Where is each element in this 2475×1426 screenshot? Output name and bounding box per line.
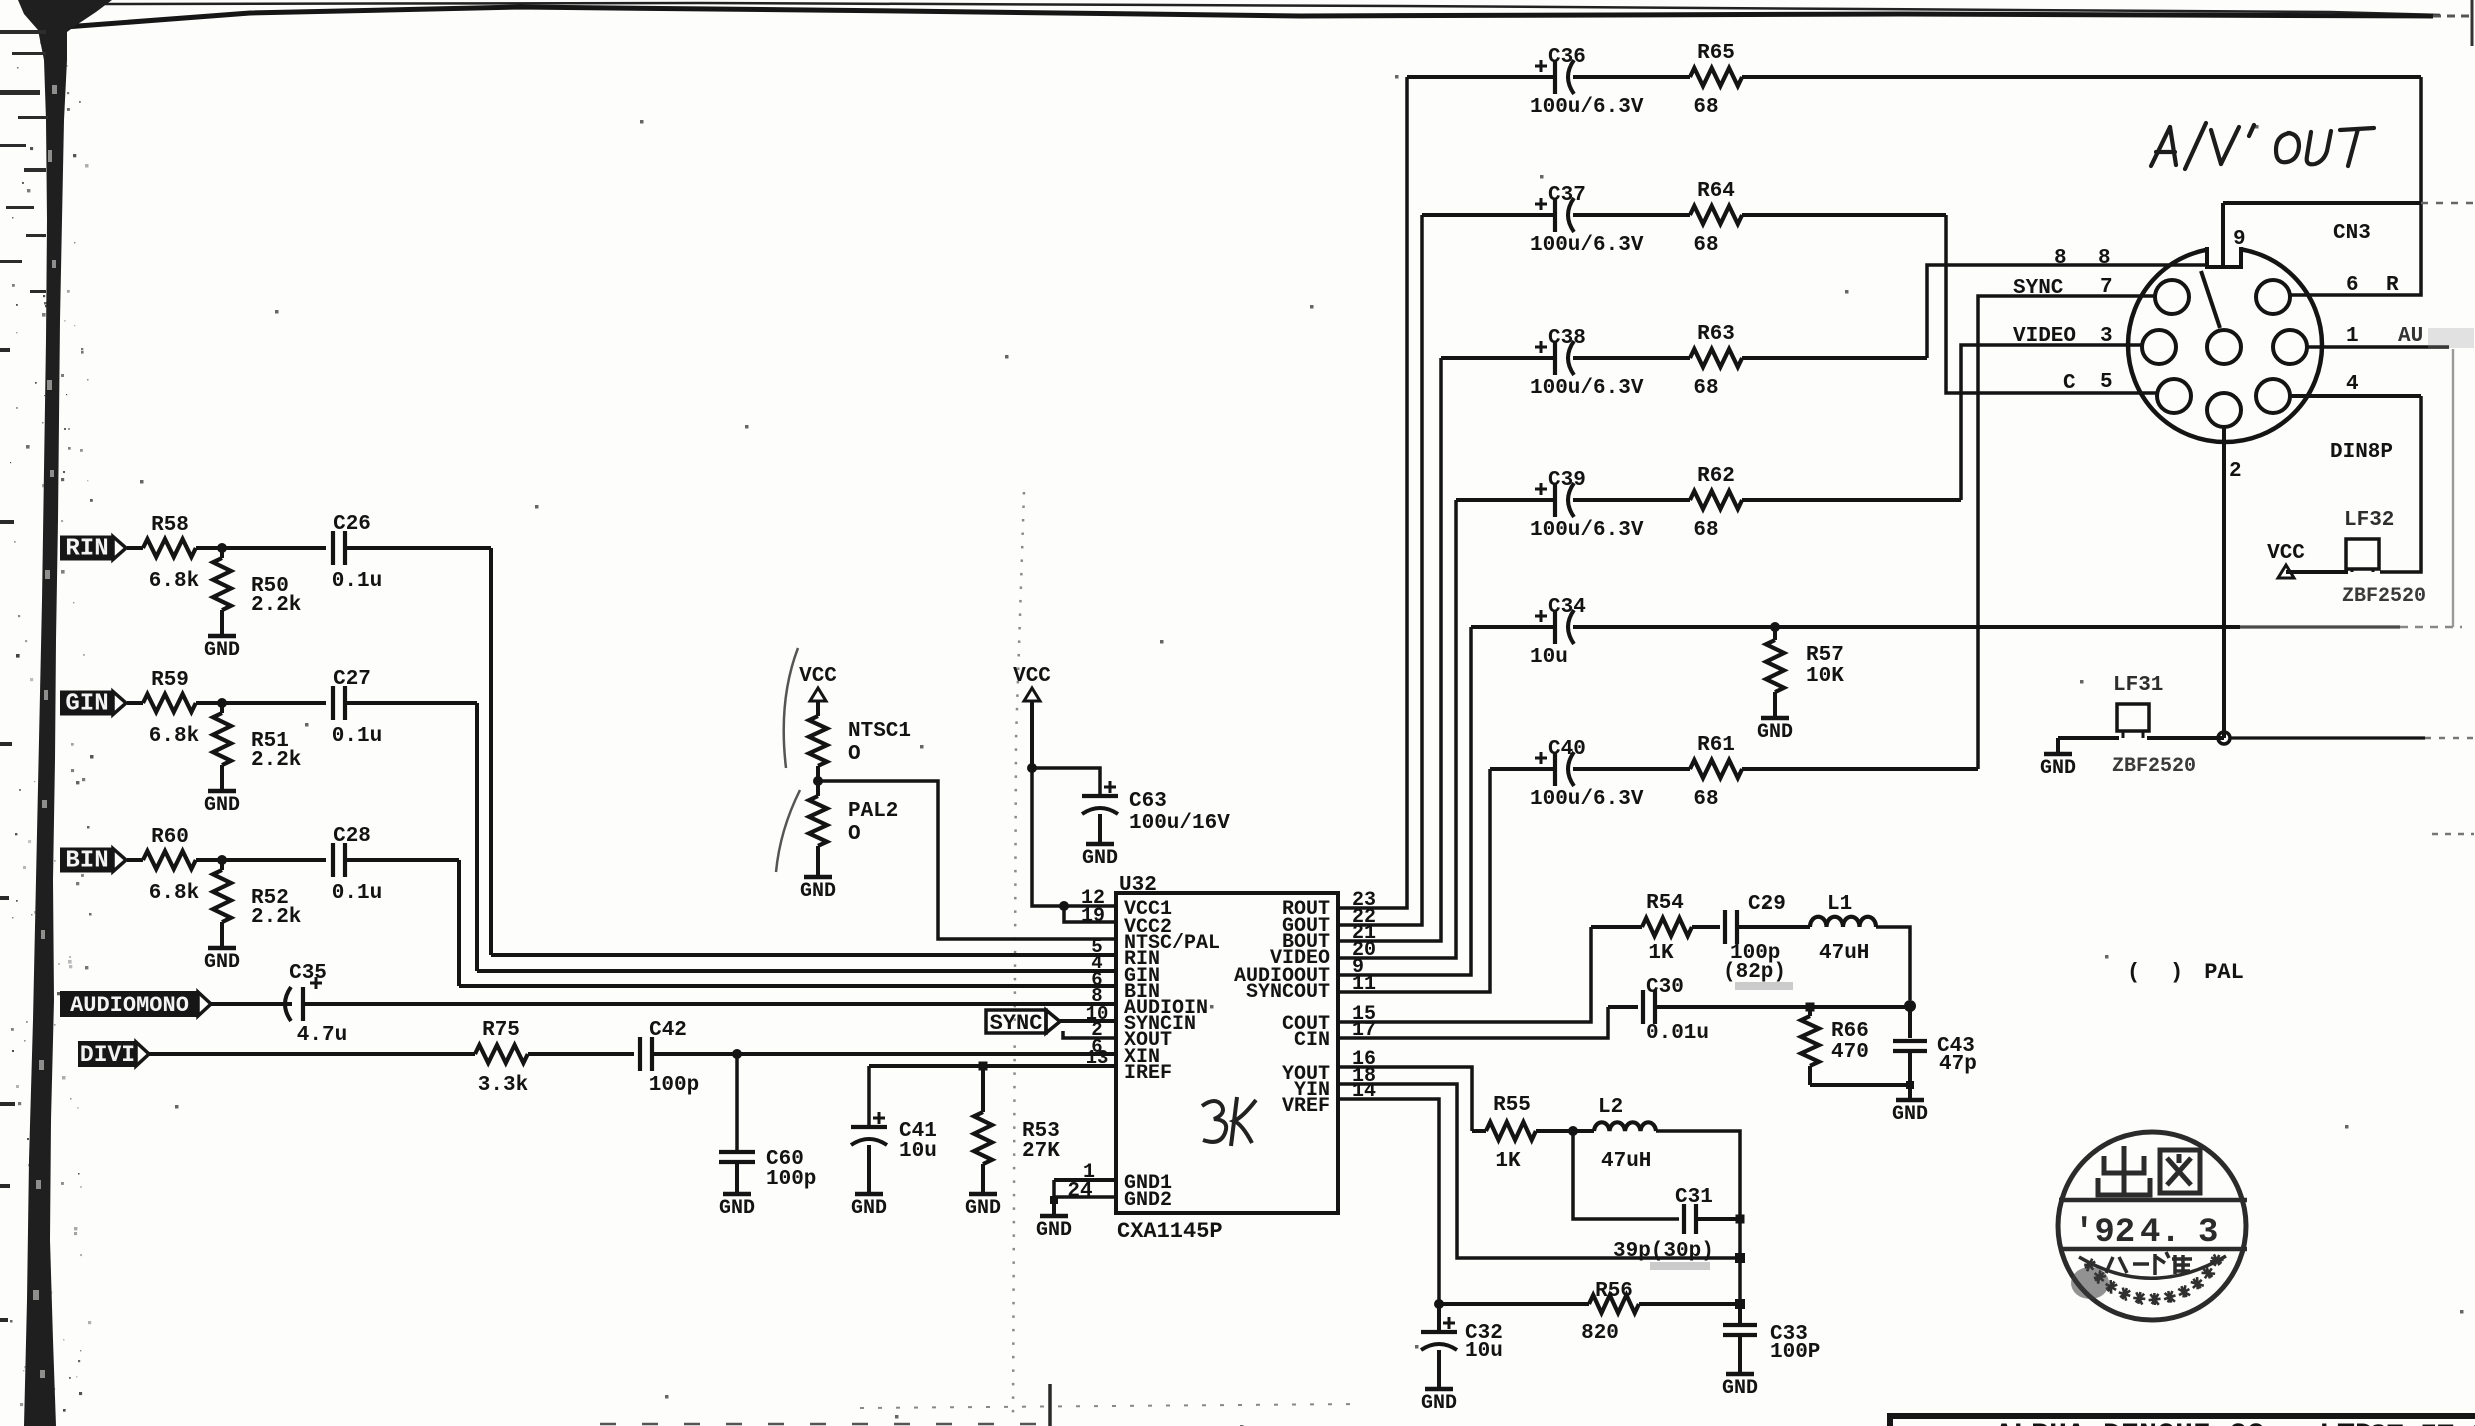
input tag SYNC	[986, 1010, 1046, 1033]
node junction YIN	[1735, 1253, 1745, 1263]
svg-text:C37: C37	[1548, 184, 1586, 207]
svg-text:6.8k: 6.8k	[149, 725, 199, 748]
ferrite bead LF31 ZBF2520	[2117, 704, 2149, 731]
wire DIVI to R75	[149, 1052, 475, 1056]
svg-text:11: 11	[1352, 973, 1376, 996]
svg-text:9: 9	[2233, 228, 2246, 251]
ground below R53	[969, 1192, 997, 1197]
svg-text:ALPHA DENCHI CO., LTD: ALPHA DENCHI CO., LTD	[1995, 1419, 2373, 1426]
svg-text:(: (	[2127, 960, 2140, 985]
svg-text:19: 19	[1081, 905, 1105, 928]
wire L1 to junction	[1876, 927, 1910, 1000]
svg-text:5: 5	[2100, 371, 2113, 394]
svg-text:C36: C36	[1548, 46, 1586, 69]
svg-text:0.1u: 0.1u	[332, 570, 382, 593]
pin 1 circle	[2273, 330, 2307, 364]
svg-text:U32: U32	[1119, 874, 1157, 897]
svg-text:47p: 47p	[1939, 1053, 1977, 1076]
wire IREF	[869, 1064, 1116, 1068]
wire GIN vertical	[475, 703, 479, 971]
wire GND2 pin 24	[1054, 1180, 1116, 1197]
wire row C39 left	[1456, 498, 1554, 502]
svg-text:3: 3	[2100, 325, 2113, 348]
node junction C43 gnd	[1906, 1081, 1914, 1089]
pin 4 circle	[2256, 379, 2290, 413]
node junction NTSC/PAL	[813, 776, 823, 786]
wire R65 row to CN3 pin 6 R	[2291, 77, 2421, 295]
node junction VCC	[1027, 763, 1037, 773]
wire R63 row up to pin 8	[1927, 265, 2206, 358]
svg-text:GIN: GIN	[65, 691, 108, 718]
svg-text:'92: '92	[2074, 1214, 2135, 1252]
wire LF31 node right	[2230, 736, 2425, 739]
svg-text:R61: R61	[1697, 734, 1735, 757]
svg-text:GND: GND	[719, 1197, 755, 1220]
connector CN3 DIN8P circle	[2128, 248, 2322, 442]
wire SYNCOUT pin 11 bus	[1338, 769, 1490, 992]
svg-text:2.2k: 2.2k	[251, 594, 301, 617]
input tag DIVI	[79, 1042, 136, 1066]
wire CIN pin 17	[1338, 1007, 1608, 1038]
svg-text:7: 7	[2100, 276, 2113, 299]
svg-text:6.8k: 6.8k	[149, 882, 199, 905]
svg-text:C28: C28	[333, 825, 371, 848]
wire VCC down	[1030, 701, 1034, 768]
pin 8 circle	[2207, 330, 2241, 364]
wire VREF pin 14	[1338, 1099, 1439, 1304]
svg-text:R62: R62	[1697, 465, 1735, 488]
capacitor C29 100p(82p)	[1723, 910, 1727, 944]
wire GND1 pin 1	[1054, 1178, 1116, 1182]
svg-text:2.2k: 2.2k	[251, 906, 301, 929]
wire row C37 left	[1422, 213, 1554, 217]
svg-text:1K: 1K	[1495, 1150, 1521, 1173]
wire R66/C43 bottom	[1810, 1083, 1906, 1087]
ferrite bead LF32 ZBF2520	[2346, 539, 2379, 569]
wire R61 row up to pin 7 SYNC	[1978, 296, 2156, 769]
inductor L2 47uH	[1573, 1129, 1594, 1133]
ground below C60	[723, 1192, 751, 1197]
wire VCC to VCC1/VCC2	[1032, 768, 1116, 906]
node junction L1/C43	[1904, 1000, 1916, 1012]
svg-text:GND2: GND2	[1124, 1189, 1172, 1212]
svg-text:820: 820	[1581, 1322, 1619, 1345]
capacitor C31 39p(30p)	[1573, 1131, 1679, 1219]
wire C37 to R64	[1573, 213, 1690, 217]
svg-text:R66: R66	[1831, 1020, 1869, 1043]
wire GND to LF31	[2058, 736, 2119, 740]
capacitor C60 100p	[735, 1054, 739, 1150]
svg-text:10K: 10K	[1806, 665, 1844, 688]
svg-text:C: C	[2063, 372, 2076, 395]
title block frame	[1890, 1416, 2475, 1426]
wire C26 to corner	[345, 546, 491, 550]
connector key line	[2201, 271, 2220, 328]
svg-text:C27: C27	[333, 668, 371, 691]
svg-text:AU: AU	[2398, 325, 2423, 348]
capacitor C43 47p	[1908, 1007, 1912, 1038]
wire RIN vertical	[489, 548, 493, 955]
svg-text:GND: GND	[965, 1197, 1001, 1220]
ground below C33	[1726, 1372, 1754, 1377]
wire R62 row up to pin 3 VIDEO	[1961, 345, 2143, 500]
capacitor C35 4.7u	[285, 987, 291, 1021]
node junction C31	[1736, 1215, 1745, 1224]
svg-text:R54: R54	[1646, 892, 1684, 915]
svg-text:GND: GND	[851, 1197, 887, 1220]
svg-text:4.7u: 4.7u	[297, 1024, 347, 1047]
svg-text:GND: GND	[800, 880, 836, 903]
node junction GIN	[217, 698, 227, 708]
ground below R52	[208, 946, 236, 951]
svg-text:IREF: IREF	[1124, 1062, 1172, 1085]
node junction RIN	[217, 543, 227, 553]
resistor R53 27K	[981, 1066, 985, 1112]
pencil check mark 2	[776, 790, 800, 872]
wire R54 to C29	[1692, 925, 1720, 929]
wire C30 to R66 node	[1655, 1005, 1806, 1009]
input tag BIN	[61, 849, 113, 872]
svg-text:100u/6.3V: 100u/6.3V	[1530, 377, 1644, 400]
wire R55 to L2	[1536, 1129, 1573, 1133]
wire row C36 left	[1407, 75, 1554, 79]
svg-text:SYNCOUT: SYNCOUT	[1246, 981, 1330, 1004]
svg-text:C30: C30	[1646, 976, 1684, 999]
svg-text:68: 68	[1693, 96, 1718, 119]
capacitor C41 10u	[867, 1066, 871, 1127]
svg-text:0.1u: 0.1u	[332, 882, 382, 905]
svg-text:3.3k: 3.3k	[478, 1074, 528, 1097]
svg-text:8: 8	[2098, 247, 2111, 270]
svg-text:2.2k: 2.2k	[251, 749, 301, 772]
svg-text:47uH: 47uH	[1601, 1150, 1651, 1173]
resistor NTSC1 0	[809, 716, 827, 766]
pin 2 circle	[2207, 393, 2241, 427]
resistor R54 1K	[1642, 918, 1692, 936]
wire C29 to L1	[1737, 925, 1810, 929]
capacitor C40 100u/6.3V	[1553, 752, 1557, 786]
wire COUT to R54	[1591, 925, 1642, 929]
scan mark bottom	[1048, 1384, 1052, 1426]
ground below R51	[208, 789, 236, 794]
node junction R66	[1806, 1003, 1815, 1012]
resistor R60 6.8k	[143, 851, 196, 869]
svg-text:R: R	[2386, 274, 2399, 297]
resistor R50 2.2k shunt	[220, 548, 224, 558]
svg-text:68: 68	[1693, 788, 1718, 811]
svg-text:NTSC1: NTSC1	[848, 720, 911, 743]
wire CIN to C30	[1608, 1005, 1638, 1009]
svg-text:C40: C40	[1548, 738, 1586, 761]
svg-text:3: 3	[2198, 1214, 2218, 1252]
svg-text:C63: C63	[1129, 790, 1167, 813]
ground below C32	[1425, 1387, 1453, 1392]
wire C36 to R65	[1573, 75, 1690, 79]
node junction pin2/LF31	[2218, 732, 2230, 744]
svg-text:4.: 4.	[2140, 1214, 2181, 1252]
svg-text:47uH: 47uH	[1819, 942, 1869, 965]
node junction R57	[1770, 622, 1780, 632]
svg-text:24: 24	[1067, 1180, 1092, 1203]
pin 6 circle	[2256, 280, 2290, 314]
ground below C43	[1908, 1085, 1912, 1098]
svg-text:VCC: VCC	[2267, 542, 2305, 565]
wire - schematic top border	[65, 7, 2433, 27]
scan fold dotted line	[1013, 492, 1024, 1420]
svg-text:SYNC: SYNC	[990, 1011, 1043, 1036]
wire C34 right	[1573, 625, 2240, 629]
wire C35 to AUDIOIN	[303, 1002, 1116, 1006]
svg-text:C34: C34	[1548, 596, 1586, 619]
resistor R66 470	[1808, 1007, 1812, 1016]
wire C34 row faint to audio corner	[2240, 625, 2400, 628]
resistor R65 68	[1690, 68, 1742, 86]
capacitor C32 10u	[1437, 1304, 1441, 1332]
wire VIDEO pin 20 bus	[1338, 500, 1456, 958]
DIN8P box right edge	[2380, 396, 2421, 572]
svg-text:L1: L1	[1827, 893, 1852, 916]
wire YOUT pin 16	[1338, 1067, 1472, 1131]
svg-text:GND: GND	[204, 794, 240, 817]
wire C42 to XIN	[652, 1052, 1116, 1056]
svg-text:DIN8P: DIN8P	[2330, 441, 2393, 464]
resistor R56 820	[1439, 1302, 1589, 1306]
stamp smudge blob	[2071, 1267, 2109, 1299]
ground below PAL2	[804, 875, 832, 880]
svg-text:CXA1145P: CXA1145P	[1117, 1219, 1223, 1244]
svg-text:R59: R59	[151, 669, 189, 692]
svg-text:R56: R56	[1595, 1280, 1633, 1303]
svg-text:14: 14	[1352, 1080, 1376, 1103]
svg-text:AUDIOMONO: AUDIOMONO	[70, 993, 189, 1018]
wire R58 to C26	[196, 546, 326, 550]
svg-text:BIN: BIN	[65, 848, 108, 875]
svg-text:C35: C35	[289, 962, 327, 985]
ground below R57	[1761, 716, 1789, 721]
svg-text:100u/6.3V: 100u/6.3V	[1530, 519, 1644, 542]
svg-text:GND: GND	[204, 951, 240, 974]
svg-text:GND: GND	[1757, 721, 1793, 744]
svg-text:LF32: LF32	[2344, 509, 2394, 532]
resistor R63 68	[1690, 349, 1742, 367]
wire VCC to LF32	[2286, 570, 2348, 574]
svg-text:100p: 100p	[649, 1074, 699, 1097]
node junction DIVI/C60	[732, 1049, 742, 1059]
svg-text:ST.IT SUMOZSU: ST.IT SUMOZSU	[2370, 1421, 2475, 1426]
wire bracket to VCC2 pin 19	[1064, 906, 1116, 922]
svg-text:C31: C31	[1675, 1186, 1713, 1209]
svg-text:2: 2	[2229, 460, 2242, 483]
wire R63 right	[1742, 356, 1927, 360]
capacitor C42 100p	[638, 1037, 642, 1071]
wire - paper top edge line	[90, 3, 2440, 15]
wire R62 right	[1742, 498, 1961, 502]
capacitor C28 0.1u	[331, 843, 335, 877]
wire - top-right corner edge tick	[2471, 0, 2474, 46]
wire YIN pin 18	[1338, 1084, 1740, 1258]
node junction BIN	[217, 855, 227, 865]
svg-text:ZBF2520: ZBF2520	[2112, 755, 2196, 778]
capacitor C39 100u/6.3V	[1553, 483, 1557, 517]
wire VCC to NTSC1	[816, 701, 820, 716]
wire node to L1 node	[1814, 1005, 1910, 1009]
resistor R51 2.2k shunt	[220, 703, 224, 713]
ground stub LF31	[2056, 738, 2060, 752]
input tag RIN	[61, 537, 113, 560]
wire BIN vertical	[457, 860, 461, 986]
ground below IC	[1052, 1200, 1056, 1214]
inductor L1 47uH	[1810, 917, 1876, 927]
node junction R56/C33	[1735, 1299, 1745, 1309]
resistor R52 2.2k shunt	[220, 860, 224, 870]
capacitor C38 100u/6.3V	[1553, 341, 1557, 375]
svg-text:C42: C42	[649, 1019, 687, 1042]
capacitor C37 100u/6.3V	[1553, 198, 1557, 232]
svg-text:C39: C39	[1548, 469, 1586, 492]
svg-text:0.1u: 0.1u	[332, 725, 382, 748]
scan noise band left edge	[18, 0, 112, 1426]
svg-text:0.01u: 0.01u	[1646, 1022, 1709, 1045]
svg-text:100p: 100p	[766, 1168, 816, 1191]
resistor R58 6.8k	[143, 539, 196, 557]
wire COUT pin 15	[1338, 927, 1591, 1022]
svg-text:R64: R64	[1697, 180, 1735, 203]
capacitor C34 10u	[1553, 610, 1557, 644]
node junction VREF/C32	[1434, 1299, 1444, 1309]
svg-text:GND: GND	[1722, 1377, 1758, 1400]
resistor R57 10K	[1773, 627, 1777, 640]
resistor R62 68	[1690, 491, 1742, 509]
svg-text:O: O	[848, 743, 861, 766]
resistor R55 1K	[1486, 1122, 1536, 1140]
wire RIN to IC	[491, 953, 1116, 957]
svg-text:PAL: PAL	[2204, 960, 2244, 985]
ground below R50	[208, 634, 236, 639]
wire BIN to R60	[127, 858, 143, 862]
svg-text:VIDEO: VIDEO	[2013, 325, 2076, 348]
svg-text:VREF: VREF	[1282, 1095, 1330, 1118]
svg-text:17: 17	[1352, 1019, 1376, 1042]
wire AUDIOOUT pin 9 bus	[1338, 627, 1471, 975]
wire VCC to C63	[1032, 768, 1100, 794]
IC U32 CXA1145P box	[1116, 893, 1338, 1213]
svg-text:68: 68	[1693, 234, 1718, 257]
resistor R64 68	[1690, 206, 1742, 224]
svg-text:100u/16V: 100u/16V	[1129, 812, 1230, 835]
input tag GIN	[61, 692, 113, 715]
svg-text:CN3: CN3	[2333, 222, 2371, 245]
wire R64 right	[1742, 213, 1946, 217]
svg-text:VCC: VCC	[799, 665, 837, 688]
svg-text:RIN: RIN	[65, 536, 108, 563]
stamp circle SNK	[2058, 1132, 2247, 1320]
pencil check mark 1	[784, 648, 798, 768]
ground below C41	[855, 1192, 883, 1197]
wire C38 to R63	[1573, 356, 1690, 360]
svg-text:C38: C38	[1548, 327, 1586, 350]
svg-text:GND: GND	[1421, 1392, 1457, 1415]
wire R60 to C28	[196, 858, 326, 862]
svg-text:GND: GND	[204, 639, 240, 662]
wire R61 right	[1742, 767, 1978, 771]
capacitor C63 100u/16V	[1082, 794, 1118, 798]
svg-text:100P: 100P	[1770, 1341, 1820, 1364]
svg-text:68: 68	[1693, 519, 1718, 542]
svg-text:DIVI: DIVI	[80, 1042, 135, 1068]
input tag AUDIOMONO	[61, 992, 198, 1016]
svg-text:8: 8	[2054, 247, 2067, 270]
wire C40 to R61	[1573, 767, 1690, 771]
svg-text:100u/6.3V: 100u/6.3V	[1530, 234, 1644, 257]
svg-text:27K: 27K	[1022, 1140, 1060, 1163]
pin 5 circle	[2157, 379, 2191, 413]
svg-text:R75: R75	[482, 1019, 520, 1042]
handwritten A/V OUT	[2151, 123, 2374, 169]
svg-text:6.8k: 6.8k	[149, 570, 199, 593]
svg-text:VCC: VCC	[1013, 665, 1051, 688]
CN3 box top	[2223, 201, 2421, 205]
svg-text:O: O	[848, 823, 861, 846]
wire row C40 left	[1490, 767, 1554, 771]
svg-text:): )	[2170, 960, 2183, 985]
resistor R61 68	[1690, 760, 1742, 778]
svg-text:GND: GND	[1082, 847, 1118, 870]
svg-text:R57: R57	[1806, 644, 1844, 667]
pin 3 circle	[2142, 330, 2176, 364]
wire GOUT pin 22 bus	[1338, 215, 1422, 925]
svg-text:13: 13	[1086, 1047, 1109, 1069]
svg-text:10u: 10u	[1465, 1340, 1503, 1363]
svg-text:100u/6.3V: 100u/6.3V	[1530, 96, 1644, 119]
svg-text:CIN: CIN	[1294, 1029, 1330, 1052]
svg-text:R58: R58	[151, 514, 189, 537]
svg-text:ZBF2520: ZBF2520	[2342, 585, 2426, 608]
wire ROUT pin 23 bus	[1338, 77, 1407, 908]
wire pin 4	[2290, 394, 2421, 398]
svg-text:470: 470	[1831, 1041, 1869, 1064]
capacitor C33 100P	[1738, 1304, 1742, 1323]
svg-text:LF31: LF31	[2113, 674, 2163, 697]
node junction GND bracket	[1050, 1196, 1058, 1204]
capacitor C36 100u/6.3V	[1553, 60, 1557, 94]
svg-text:68: 68	[1693, 377, 1718, 400]
wire R75 to C42	[528, 1052, 634, 1056]
wire row C34 left	[1471, 625, 1554, 629]
resistor R75 3.3k	[475, 1045, 528, 1063]
node junction R53	[979, 1062, 988, 1071]
wire SYNC to SYNCIN	[1060, 1019, 1116, 1023]
wire C39 to R62	[1573, 498, 1690, 502]
ground below C63	[1086, 842, 1114, 847]
wire NTSC/PAL to IC pin 7	[818, 781, 1116, 939]
svg-text:GND: GND	[1036, 1219, 1072, 1242]
svg-text:C26: C26	[333, 513, 371, 536]
wire pin 9	[2221, 203, 2225, 266]
svg-text:R65: R65	[1697, 42, 1735, 65]
svg-text:R60: R60	[151, 826, 189, 849]
svg-text:1K: 1K	[1648, 942, 1674, 965]
wire pin 2 down	[2222, 427, 2226, 738]
svg-text:L2: L2	[1598, 1096, 1623, 1119]
capacitor C26 0.1u	[331, 531, 335, 565]
wire C27 to corner	[345, 701, 477, 705]
node junction R55/L2	[1568, 1126, 1578, 1136]
svg-text:100u/6.3V: 100u/6.3V	[1530, 788, 1644, 811]
svg-text:(82p): (82p)	[1723, 961, 1786, 984]
pin stub XOUT	[1063, 1031, 1116, 1038]
wire R64 row down to pin 5 C	[1946, 215, 2158, 393]
pin 7 circle	[2155, 280, 2189, 314]
